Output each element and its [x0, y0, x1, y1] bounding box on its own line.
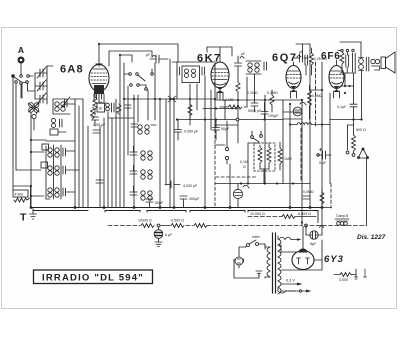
resistor under IF1	[188, 99, 192, 125]
resistor 2M vertical	[93, 93, 97, 115]
svg-text:Camp.B: Camp.B	[336, 214, 349, 218]
heater arrow 6.3V	[281, 283, 303, 286]
svg-text:0,1MΩ: 0,1MΩ	[247, 91, 258, 95]
IF transformer 2	[246, 61, 267, 74]
resistor 3000 bottom right	[334, 269, 358, 279]
capacitor grid 6F6	[346, 52, 349, 73]
capacitor 489uF	[180, 196, 187, 208]
wire coil bank frame	[46, 141, 75, 199]
capacitor 0.1uF right	[350, 104, 357, 107]
wire	[30, 186, 32, 208]
ground T	[30, 209, 37, 220]
tube 6F6	[329, 60, 344, 98]
tone triangle	[358, 148, 369, 159]
svg-text:30: 30	[99, 107, 103, 111]
capacitor 0.05	[92, 117, 99, 126]
capacitor 5000pF	[251, 96, 258, 112]
capacitor 50uF top mid	[213, 120, 220, 141]
trimmer capacitor 3	[37, 93, 46, 104]
svg-text:5000 pF: 5000 pF	[248, 109, 262, 113]
svg-text:0,1µF: 0,1µF	[337, 105, 347, 109]
wire rails right section	[225, 60, 367, 225]
svg-text:6F6: 6F6	[321, 51, 341, 62]
parts under 6A8	[91, 103, 132, 119]
band switch contacts row2	[15, 81, 29, 85]
wire	[33, 119, 35, 131]
svg-text:10000 Ω: 10000 Ω	[138, 219, 152, 223]
tube 6Y3 rectifier	[292, 226, 314, 270]
mid coil pair 1	[131, 124, 156, 134]
tube 6Q7	[286, 62, 301, 98]
resistor 1.1M horizontal	[220, 105, 247, 109]
bus lower	[33, 211, 318, 223]
capacitor 0.005uF mid	[175, 120, 182, 141]
top bracket wires over 6A8	[99, 44, 178, 66]
svg-text:3.000: 3.000	[339, 278, 348, 282]
resistor 10000 chainA	[141, 224, 154, 228]
svg-text:Dis. 1227: Dis. 1227	[357, 234, 386, 241]
bus upper	[31, 207, 323, 209]
IRRADIO label box	[34, 270, 153, 284]
svg-text:6,3 V: 6,3 V	[286, 279, 295, 283]
resistor 0.5M vertical right 6Q7	[308, 85, 312, 119]
svg-text:T: T	[20, 212, 27, 224]
junction dots left rail	[30, 139, 32, 197]
wire horizontals mid	[108, 86, 362, 125]
wire volume	[248, 143, 269, 184]
wire	[160, 225, 170, 227]
wire	[36, 112, 38, 114]
terminals 6F6 cluster	[338, 49, 354, 51]
power transformer secondary	[278, 236, 296, 294]
wire	[13, 185, 31, 187]
svg-text:500 Ω: 500 Ω	[356, 128, 366, 132]
tone switch	[346, 125, 355, 156]
power transformer core	[273, 233, 276, 293]
svg-text:1MΩ: 1MΩ	[284, 157, 292, 161]
oscillator coil row2	[41, 162, 66, 175]
wire avc y119	[283, 118, 302, 120]
switch contacts volume top	[251, 131, 263, 142]
tube 6K7	[211, 56, 229, 100]
mid coil pair 3	[130, 165, 152, 179]
dashed vertical x315	[315, 62, 317, 128]
svg-text:8µF: 8µF	[310, 242, 317, 246]
svg-text:0,1MΩ: 0,1MΩ	[267, 91, 278, 95]
resistor 0.1M vertical 6K7	[236, 75, 240, 100]
electrolytic 8uF bottom	[306, 231, 322, 239]
svg-text:5 µF: 5 µF	[319, 161, 327, 165]
svg-text:6A8: 6A8	[60, 64, 84, 76]
wire dashes chainA	[186, 225, 193, 227]
trimmer capacitor 2	[37, 80, 46, 91]
coil switch box E	[50, 129, 66, 135]
trimmer capacitor 1	[37, 67, 46, 78]
tube 6A8	[89, 60, 109, 103]
oscillator coil row1	[42, 144, 66, 157]
wire stub right	[364, 269, 367, 277]
IF transformer 1	[172, 62, 215, 83]
wire rail left2	[15, 84, 17, 170]
antenna coil assembly	[53, 97, 70, 114]
mains switch	[239, 240, 265, 254]
antenna A	[19, 58, 24, 75]
output transformer	[359, 57, 380, 71]
transformer top winding	[279, 237, 302, 241]
resistor chainA3	[194, 224, 207, 228]
volume resistor a	[258, 145, 262, 169]
resistor 0500 chainA	[171, 224, 184, 228]
wires rectifier	[279, 240, 322, 270]
connector circle	[236, 118, 239, 121]
svg-text:400µF: 400µF	[189, 197, 200, 201]
wire x238 pickup	[237, 199, 239, 208]
capacitor 0.05 bottom left2	[96, 180, 103, 183]
svg-text:µF: µF	[241, 52, 245, 56]
switch contacts mid-left	[215, 121, 229, 164]
volume resistor b	[267, 143, 271, 169]
band switch contacts row1	[12, 75, 33, 81]
svg-text:50µF: 50µF	[155, 201, 164, 205]
dashed chainA to psu	[207, 225, 302, 227]
wire rail comb left	[75, 55, 124, 208]
svg-text:interr.: interr.	[252, 235, 261, 239]
svg-text:µF: µF	[299, 50, 303, 54]
ground plug	[256, 271, 262, 276]
svg-text:-0.500 Ω: -0.500 Ω	[170, 219, 184, 223]
capacitor right 6Q7	[304, 55, 308, 75]
resistor anode 6Q7	[310, 48, 314, 75]
resistor 0.1M vertical mid	[270, 90, 274, 112]
oscillator coil row3	[48, 188, 66, 197]
wire rail left1	[12, 77, 14, 186]
wire plug bottom	[234, 259, 259, 278]
capacitor 100pF mid	[261, 102, 268, 120]
electrolytic 5uF	[317, 148, 331, 159]
svg-text:4.000 pF: 4.000 pF	[183, 184, 198, 188]
electrolytic 8uF chainA	[154, 227, 163, 247]
wire top 6F6	[340, 42, 361, 73]
svg-text:50µF: 50µF	[221, 127, 230, 131]
choke coil	[290, 123, 330, 125]
bracket over 6K7	[207, 47, 232, 56]
wire	[28, 83, 35, 91]
wire trimmer bank	[35, 66, 53, 104]
pickup jack	[233, 184, 249, 199]
capacitor 0.05uF left bottom	[93, 130, 100, 133]
capacitor right of 6K7	[235, 56, 245, 75]
long wire y183	[215, 183, 310, 185]
svg-text:0,5MΩ: 0,5MΩ	[312, 94, 323, 98]
capacitor 0.1uF lower right	[303, 196, 310, 199]
resistor 500 vertical right	[352, 135, 356, 153]
wire hop	[320, 226, 324, 228]
switch contacts mid	[124, 69, 153, 90]
svg-text:-5.000 Ω: -5.000 Ω	[297, 212, 311, 216]
svg-text:10.000 Ω: 10.000 Ω	[250, 212, 265, 216]
mid coil pair 4	[130, 186, 152, 200]
svg-text:8 µF: 8 µF	[165, 233, 173, 237]
coil 2 left	[51, 118, 62, 127]
svg-text:100µF: 100µF	[268, 114, 279, 118]
resistor grid 6F6	[340, 52, 344, 73]
capacitor tone 6F6	[353, 53, 356, 72]
dashdot vertical x301	[300, 128, 302, 180]
wire	[20, 84, 22, 98]
heater arrow 2	[281, 290, 312, 293]
mains plug	[235, 254, 243, 268]
wire horizontals left	[16, 99, 83, 196]
wire avc long	[178, 119, 283, 121]
resistor 4M box	[13, 186, 30, 202]
svg-text:4 MΩ: 4 MΩ	[15, 193, 24, 197]
wire	[30, 112, 32, 208]
wire y108	[203, 108, 238, 110]
capacitor 50uF	[146, 199, 153, 208]
resistor 1M vertical right	[278, 142, 282, 170]
dashed wire y178	[216, 176, 256, 178]
svg-text:0,1M: 0,1M	[240, 160, 248, 164]
volume pot dashed box	[254, 143, 275, 171]
svg-text:0.005 µF: 0.005 µF	[184, 130, 199, 134]
capacitor 4000pF	[165, 181, 180, 188]
svg-text:IRRADIO "DL 594": IRRADIO "DL 594"	[42, 273, 144, 284]
dashed control line psu	[108, 225, 140, 227]
speaker	[381, 52, 395, 73]
wire rails mid	[128, 59, 215, 208]
tuning gang	[29, 103, 40, 119]
resistor 10000 bottom	[248, 215, 316, 219]
mid coil pair 2	[130, 146, 152, 160]
power transformer primary	[265, 244, 270, 278]
svg-text:µF: µF	[146, 53, 150, 57]
capacitor grid 6A8	[150, 55, 168, 63]
field coil campo	[335, 219, 349, 225]
wire x230	[229, 164, 231, 208]
grid cap 6Q7	[294, 44, 310, 62]
svg-text:A: A	[18, 45, 24, 55]
svg-text:0,5MΩ: 0,5MΩ	[303, 190, 314, 194]
wire	[21, 84, 23, 98]
switch node circle	[305, 224, 308, 227]
resistor 05M vertical	[320, 188, 324, 208]
dashed vertical x215	[214, 130, 216, 208]
svg-text:Ω: Ω	[243, 165, 246, 169]
dashed control line psu right	[310, 225, 367, 227]
junction circle chainA	[157, 224, 160, 227]
wire 8uF stems	[306, 225, 322, 235]
svg-text:6Y3: 6Y3	[324, 254, 344, 265]
pickup jack 2	[293, 102, 306, 116]
